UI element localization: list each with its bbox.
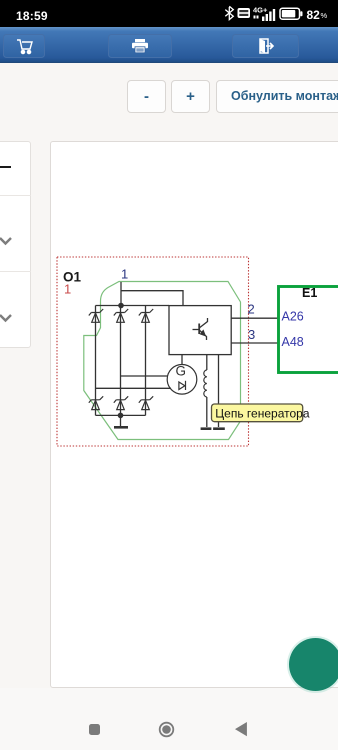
svg-text:%: %: [321, 11, 328, 20]
svg-text:G: G: [176, 364, 187, 379]
wire phase column 1: [95, 306, 97, 416]
wire branch to regulator top: [121, 291, 183, 306]
svg-text:E1: E1: [302, 286, 317, 300]
navbar: [0, 688, 338, 750]
diode D1 (top row, zener): [89, 309, 103, 322]
wire phase column 2: [120, 306, 122, 416]
tooltip: Цепь генератора: [212, 404, 310, 422]
wire regulator to ground: [218, 355, 220, 427]
svg-text:1: 1: [121, 267, 128, 282]
inductor L1 (field winding): [204, 370, 207, 397]
wire bottom bus to ground: [120, 415, 122, 426]
sidebar: [0, 141, 31, 348]
schematic svg: [51, 142, 338, 688]
junction node 1 / top bus: [118, 303, 124, 309]
wire bottom bus: [96, 414, 146, 416]
diode D2 (top row, zener): [114, 309, 128, 322]
wire regulator to field winding: [206, 355, 208, 370]
svg-text:A26: A26: [282, 310, 304, 324]
wire stator to generator lower: [96, 387, 172, 389]
wire top bus: [96, 305, 170, 307]
fab: [289, 638, 338, 691]
cart button: [3, 34, 45, 58]
svg-text:1: 1: [64, 281, 71, 296]
component O1 selection box (red dashed): [57, 257, 249, 446]
zoom buttons: [127, 80, 166, 113]
svg-text:3: 3: [248, 327, 255, 342]
connector block E1: [279, 287, 338, 373]
wire stator to generator upper: [121, 375, 168, 377]
wire regulator to generator: [181, 355, 183, 365]
svg-text:2: 2: [248, 301, 255, 316]
generator G (rotor circle): [167, 365, 197, 395]
ground (regulator): [213, 427, 225, 430]
alternator O1 housing outline (green): [84, 282, 241, 440]
diode D5 (bottom row, zener): [114, 396, 128, 409]
svg-text:A48: A48: [282, 335, 304, 349]
ground (field winding): [201, 427, 212, 430]
print button: [108, 34, 172, 58]
exit button: [232, 34, 299, 58]
voltage regulator box: [169, 306, 231, 355]
wire pin 2 to E1: [231, 317, 278, 319]
wire node 1 down to bus: [120, 282, 122, 306]
ground (bottom bus): [114, 426, 128, 429]
diode D4 (bottom row, zener): [89, 396, 103, 409]
diode symbol inside generator: [179, 381, 186, 390]
wire phase column 3: [145, 306, 147, 416]
svg-text:82: 82: [307, 8, 321, 22]
diode D6 (bottom row, zener): [139, 396, 153, 409]
svg-text:Цепь генератора: Цепь генератора: [215, 406, 310, 420]
wire pin 3 to E1: [231, 342, 278, 344]
main drawing panel: [50, 141, 338, 688]
wire field winding to ground: [206, 397, 208, 427]
diode D3 (top row, zener): [139, 309, 153, 322]
junction bottom bus / ground: [118, 413, 124, 419]
svg-text:4G+: 4G+: [253, 6, 268, 15]
transistor Q1 (inside regulator): [193, 318, 208, 340]
